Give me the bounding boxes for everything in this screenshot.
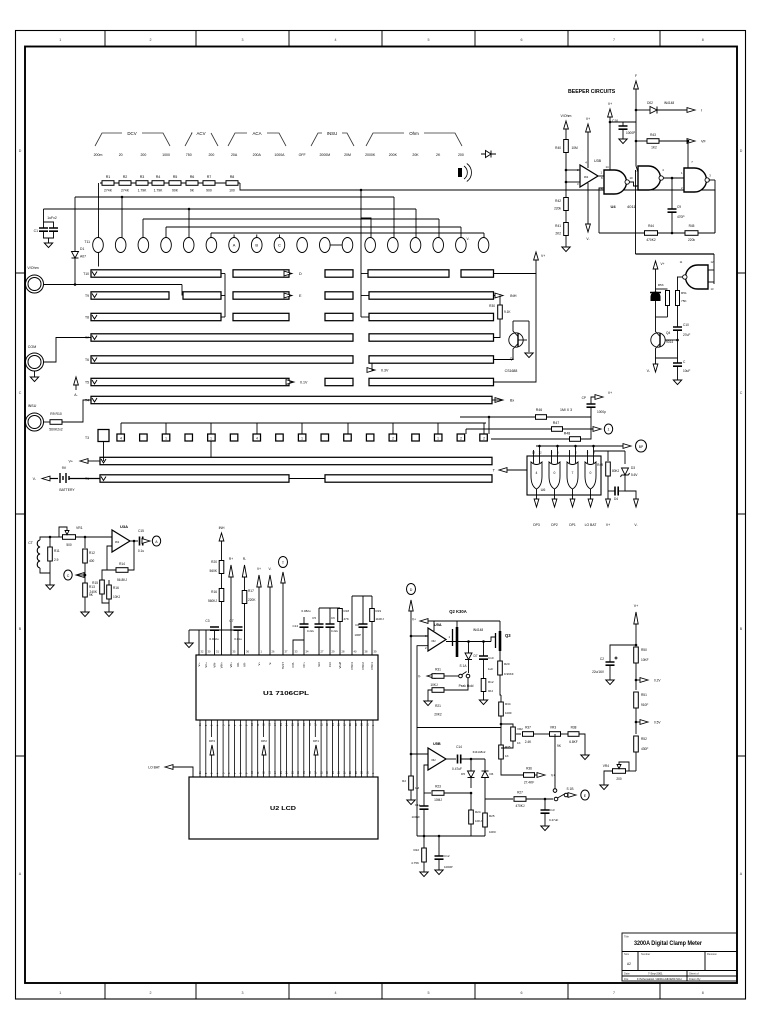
svg-text:2: 2	[150, 991, 152, 995]
wire VR3 to S1B	[554, 768, 556, 793]
capacitor C10	[673, 327, 682, 330]
resistor R20b	[498, 661, 503, 675]
connector arrow 1	[593, 427, 601, 432]
diode D7	[465, 653, 472, 660]
svg-text:D02: D02	[647, 101, 653, 105]
svg-text:20M: 20M	[344, 153, 351, 157]
svg-text:80KJ: 80KJ	[612, 469, 620, 473]
svg-text:LO BAT: LO BAT	[148, 766, 160, 770]
svg-text:10KJ: 10KJ	[430, 683, 438, 687]
resistor R31	[432, 674, 444, 679]
svg-text:R30: R30	[489, 304, 495, 308]
svg-text:Sheet of: Sheet of	[689, 972, 699, 976]
connector arrow V-	[634, 499, 639, 507]
wire stub circle	[256, 235, 258, 238]
XOR gate U6-3	[567, 462, 578, 489]
svg-text:C16: C16	[612, 119, 618, 123]
wire drop circle 17	[460, 227, 462, 238]
range bracket DCV	[95, 133, 170, 146]
resistor R20	[219, 561, 224, 574]
svg-text:R21: R21	[435, 704, 441, 708]
wire R12 down	[84, 563, 86, 575]
wire to E	[289, 295, 291, 297]
switch contact square 16	[457, 434, 465, 441]
svg-text:CT: CT	[28, 541, 34, 545]
wire	[622, 129, 624, 139]
capacitor C6	[326, 624, 335, 627]
svg-text:U4: U4	[610, 204, 616, 209]
svg-text:C10: C10	[488, 656, 494, 660]
wire D vertical	[410, 611, 412, 754]
wire C14 down	[303, 627, 305, 655]
wire F line down	[635, 170, 637, 254]
wiper chevron T10	[92, 272, 97, 276]
svg-text:12: 12	[538, 451, 542, 455]
svg-text:R43: R43	[650, 133, 656, 137]
svg-text:IN4148x2: IN4148x2	[473, 750, 486, 754]
potentiometer VR1	[63, 535, 76, 540]
wire U5B -in	[424, 765, 428, 793]
wire cap down	[590, 407, 592, 417]
wire R- down	[244, 577, 246, 590]
wire gate in A	[533, 450, 535, 463]
label 0.3V	[367, 368, 375, 373]
svg-text:1: 1	[59, 38, 61, 42]
junction D1	[74, 283, 77, 286]
connector V- arrow	[42, 476, 50, 481]
svg-text:C7: C7	[229, 619, 233, 623]
svg-text:2: 2	[150, 38, 152, 42]
capacitor C4	[587, 404, 596, 407]
svg-text:200A: 200A	[253, 153, 262, 157]
wire gate4 inputs	[713, 254, 715, 284]
svg-text:C6: C6	[331, 616, 335, 620]
wire NAND3 out	[709, 179, 716, 181]
svg-text:V-: V-	[268, 662, 272, 665]
wire R23 to node	[444, 792, 471, 794]
wire R15 top	[102, 570, 116, 580]
zone divider tick	[567, 31, 569, 1000]
svg-text:Ohm: Ohm	[409, 131, 419, 136]
svg-text:Peak Hold: Peak Hold	[459, 684, 474, 688]
switch contact square 8	[276, 434, 284, 441]
svg-text:VR3: VR3	[550, 726, 556, 730]
capacitor C14b	[458, 755, 461, 764]
resistor R4	[152, 181, 164, 186]
svg-text:062: 062	[431, 639, 436, 643]
rotary switch contact circle 9	[274, 238, 285, 253]
svg-text:1000P: 1000P	[626, 131, 635, 135]
rotary switch contact circle 8	[251, 238, 262, 253]
IC U2 LCD	[189, 777, 378, 839]
svg-text:C11: C11	[415, 803, 421, 807]
wire U1-LCD pin	[216, 720, 218, 777]
wire battery left	[48, 478, 58, 480]
svg-text:OSC2: OSC2	[361, 662, 365, 670]
wire	[626, 770, 637, 772]
svg-text:4011: 4011	[627, 204, 636, 209]
NAND gate U4D	[686, 265, 709, 289]
wire V+ rail down	[494, 274, 537, 383]
wire V+ to opamp	[587, 132, 589, 168]
zone divider tick	[659, 31, 661, 1000]
wire bus to T10	[361, 273, 368, 275]
svg-text:4: 4	[256, 436, 258, 440]
svg-text:Date:: Date:	[624, 972, 630, 976]
svg-text:T9: T9	[85, 294, 89, 298]
svg-text:ACA: ACA	[252, 131, 261, 136]
wire	[438, 859, 440, 870]
svg-text:V+: V+	[257, 662, 261, 666]
wire U1-LCD pin	[320, 720, 322, 777]
switch contact square 4	[185, 434, 193, 441]
switch wafer T6 bar	[369, 356, 494, 363]
wire C10 down	[677, 330, 679, 358]
terminal V/Ohm	[26, 275, 44, 293]
svg-text:D1: D1	[80, 247, 84, 251]
wire R13 down	[84, 597, 86, 612]
resistor R18	[338, 609, 343, 622]
resistor R22	[422, 848, 427, 862]
XOR gate U6-1	[531, 462, 542, 489]
wire opamp -in	[566, 181, 580, 183]
svg-text:R51: R51	[641, 693, 647, 697]
svg-text:400: 400	[89, 559, 95, 563]
diode D6	[482, 771, 489, 778]
switch wafer T8 bar	[91, 313, 221, 320]
resistor R19	[370, 609, 375, 622]
wire VR1 to opamp	[76, 536, 113, 538]
svg-text:470KJ: 470KJ	[515, 804, 524, 808]
zone divider tick	[104, 31, 106, 1000]
analog switch Q2	[456, 627, 459, 657]
switch wafer T1 bar	[100, 475, 289, 482]
wire U1-LCD pin	[326, 720, 328, 777]
svg-text:R5: R5	[173, 175, 178, 179]
wire bus to T8	[361, 316, 369, 318]
wire bus stub T9	[221, 295, 225, 297]
wire U1-LCD pin	[355, 720, 357, 777]
wiper chevron T8	[92, 315, 97, 319]
svg-text:4.75K: 4.75K	[411, 861, 419, 865]
svg-text:10M: 10M	[572, 146, 579, 150]
wire gate4 out to R51	[677, 277, 679, 291]
svg-text:Title: Title	[624, 935, 629, 939]
resistor R41	[564, 223, 569, 236]
connector arrow V+	[606, 499, 611, 507]
switch wafer T9 bar	[91, 292, 169, 299]
wire	[483, 642, 485, 657]
svg-text:Q2 K30A: Q2 K30A	[449, 609, 466, 614]
wire CT bottom	[40, 568, 50, 573]
svg-text:R16: R16	[211, 590, 217, 594]
svg-text:5: 5	[428, 991, 430, 995]
wire chain to circle 1	[98, 183, 100, 238]
svg-text:R31: R31	[435, 668, 441, 672]
wire INSU	[44, 421, 51, 423]
resistor R6	[186, 181, 198, 186]
svg-text:4: 4	[536, 471, 538, 475]
svg-text:COM: COM	[28, 345, 36, 349]
wire R20 down	[500, 675, 501, 695]
wire	[470, 793, 472, 810]
potentiometer VR3	[550, 732, 561, 737]
svg-text:200: 200	[616, 777, 622, 781]
wire opamp V- pin	[587, 183, 589, 224]
wire Q1 collector down	[528, 321, 530, 352]
wire drop circle 4	[165, 227, 167, 238]
svg-text:TEST: TEST	[281, 662, 285, 669]
wire	[143, 540, 147, 542]
wire U1-LCD pin	[303, 720, 305, 777]
wire square stub	[392, 423, 394, 434]
switch contact square 10	[321, 434, 329, 441]
capacitor C2 electrolytic	[606, 662, 615, 665]
svg-text:75K: 75K	[681, 299, 687, 303]
wire F line	[635, 89, 637, 166]
svg-text:7: 7	[572, 471, 574, 475]
wire	[329, 608, 331, 624]
svg-text:U3B: U3B	[594, 159, 602, 163]
svg-text:R37: R37	[525, 726, 531, 730]
wire	[544, 813, 546, 826]
wire	[484, 788, 486, 813]
rotary switch contact circle 1	[93, 238, 104, 253]
zone divider tick side	[16, 513, 746, 515]
wire to D	[289, 273, 291, 275]
svg-text:560K2x2: 560K2x2	[49, 428, 62, 432]
ground R41	[562, 247, 570, 252]
svg-text:2: 2	[460, 436, 462, 440]
svg-text:20K: 20K	[412, 153, 419, 157]
svg-text:47K: 47K	[344, 617, 349, 621]
resistor R12	[83, 549, 88, 563]
svg-text:22u/16V: 22u/16V	[592, 670, 605, 674]
svg-text:1K2: 1K2	[651, 146, 657, 150]
svg-text:1.79K: 1.79K	[138, 189, 148, 193]
connector circle C	[64, 570, 72, 580]
svg-text:ACV: ACV	[196, 131, 205, 136]
svg-text:R14: R14	[119, 562, 125, 566]
wire	[423, 862, 425, 872]
svg-text:2000M: 2000M	[319, 153, 330, 157]
wire square stub	[347, 423, 349, 434]
wire gate in A	[551, 450, 553, 463]
svg-text:V+: V+	[661, 262, 665, 266]
wire V+ down	[655, 269, 657, 289]
svg-text:VR4: VR4	[603, 764, 609, 768]
ground R13	[81, 612, 89, 617]
wire R35 down	[501, 759, 523, 775]
svg-text:9.99KF: 9.99KF	[504, 672, 514, 676]
wire C7 down	[237, 630, 239, 655]
switch wafer T4 bar	[91, 396, 492, 403]
wire wiper box down	[103, 442, 105, 462]
svg-text:C: C	[67, 574, 70, 578]
svg-text:560KJ: 560KJ	[208, 599, 217, 603]
wire buzzer down	[655, 301, 657, 318]
svg-text:BEEPER CIRCUITS: BEEPER CIRCUITS	[568, 89, 616, 95]
switch wafer T10 bar	[461, 270, 494, 277]
svg-text:1.79K: 1.79K	[154, 189, 164, 193]
rotary switch contact circle 11	[320, 238, 331, 253]
wire R11 down	[49, 561, 51, 585]
switch contact square 11	[344, 434, 352, 441]
svg-text:D: D	[410, 588, 413, 592]
svg-text:3200A Digital Clamp Meter: 3200A Digital Clamp Meter	[634, 941, 703, 947]
wire to R43	[636, 140, 647, 142]
svg-text:CP: CP	[582, 396, 586, 400]
wire VR4 wiper loop	[619, 762, 629, 771]
switch wafer T2 bar	[100, 457, 492, 464]
wire V+ down	[635, 624, 637, 645]
capacitor C12	[435, 856, 444, 859]
wire bundle L3	[44, 208, 417, 210]
wire square down	[210, 441, 212, 458]
wire to 0.3V	[372, 363, 374, 370]
rotary switch contact circle 15	[410, 238, 421, 253]
wire R30 to T7	[494, 319, 501, 338]
svg-text:3: 3	[242, 991, 244, 995]
svg-text:INH: INH	[219, 526, 225, 530]
svg-text:R18: R18	[344, 609, 350, 613]
svg-text:1M/ X 3: 1M/ X 3	[560, 408, 572, 412]
switch wafer T5 bar	[91, 378, 289, 385]
wire C3 down	[214, 630, 216, 655]
svg-text:U1 7106CPL: U1 7106CPL	[263, 691, 310, 697]
svg-text:1000p: 1000p	[597, 410, 606, 414]
svg-text:10MJ: 10MJ	[434, 798, 442, 802]
svg-text:V+: V+	[541, 254, 545, 258]
svg-text:F: F	[635, 74, 637, 78]
wire V+ to pin14	[609, 117, 611, 171]
wire V- to pin	[269, 587, 271, 655]
wire S1A down	[444, 678, 468, 690]
resistor R7	[203, 181, 215, 186]
wire chain to beeper loop	[240, 183, 715, 233]
wire R43 out	[659, 140, 692, 142]
wire	[622, 122, 624, 126]
wire	[635, 663, 637, 690]
svg-text:3: 3	[242, 38, 244, 42]
wire VR4 left	[604, 771, 613, 785]
svg-text:V+: V+	[257, 567, 261, 571]
wire bus stub T8	[221, 316, 225, 318]
svg-text:20: 20	[119, 153, 123, 157]
wire	[470, 759, 472, 771]
switch wafer T9 bar	[369, 292, 494, 299]
switch contact square 17	[480, 434, 488, 441]
svg-text:100F: 100F	[505, 711, 512, 715]
svg-text:100nF: 100nF	[411, 815, 420, 819]
svg-text:560K: 560K	[210, 569, 218, 573]
capacitor C1a	[39, 228, 48, 231]
connector arrow VF	[687, 139, 695, 144]
resistor R51	[676, 291, 680, 306]
wire	[371, 596, 373, 609]
connector V+ battery	[80, 459, 88, 464]
svg-text:V+: V+	[606, 523, 610, 527]
svg-text:1: 1	[301, 436, 303, 440]
capacitor C13	[541, 810, 550, 813]
svg-text:200m: 200m	[94, 153, 103, 157]
svg-text:Cint: Cint	[328, 662, 332, 667]
resistor R37	[523, 732, 534, 737]
svg-text:90K: 90K	[172, 189, 179, 193]
diode-test icon	[481, 151, 496, 158]
current transformer CT	[37, 540, 40, 568]
svg-text:2000K: 2000K	[365, 153, 376, 157]
svg-text:200: 200	[458, 153, 464, 157]
svg-text:4: 4	[335, 991, 337, 995]
rotary switch contact circle 4	[161, 238, 172, 253]
wire	[677, 366, 679, 380]
wire U5A Vcc	[433, 621, 435, 631]
wire R14 to out	[128, 541, 134, 570]
capacitor C1b	[49, 228, 58, 231]
wire U5A feedback loop	[417, 646, 501, 728]
wire to V-	[655, 358, 657, 364]
svg-text:R36: R36	[526, 767, 532, 771]
wire gate in B	[575, 446, 577, 463]
switch S1A	[459, 674, 463, 678]
capacitor C10b	[479, 656, 488, 659]
svg-text:Size: Size	[624, 952, 630, 956]
resistor R25	[483, 813, 488, 827]
wire feedback down	[416, 728, 418, 837]
wire	[423, 793, 425, 806]
wire	[423, 809, 425, 836]
wire bottom rail	[417, 835, 485, 837]
svg-text:100P: 100P	[354, 633, 361, 637]
wire to U5B +in	[411, 753, 428, 755]
capacitor C5	[315, 624, 324, 627]
wire	[371, 622, 373, 656]
wire C9 down	[671, 212, 673, 233]
svg-text:2: 2	[392, 436, 394, 440]
wire to R13	[84, 575, 86, 583]
svg-text:S 1B: S 1B	[567, 787, 574, 791]
wire to R46	[460, 416, 536, 418]
ground VR4	[600, 785, 608, 790]
resistor R8	[226, 181, 238, 186]
svg-text:0: 0	[590, 471, 592, 475]
switch contact square 7	[253, 434, 261, 441]
svg-text:R17: R17	[248, 589, 254, 593]
wire R+ to pin	[230, 577, 232, 655]
svg-text:R1: R1	[106, 175, 111, 179]
switch wafer T7 bar	[91, 334, 353, 341]
wire drop circle 3	[142, 219, 144, 238]
wire R38 gnd	[579, 734, 585, 755]
ground R12	[479, 700, 487, 705]
svg-text:V+: V+	[69, 460, 74, 464]
svg-text:D: D	[299, 272, 302, 276]
svg-text:R2: R2	[402, 779, 406, 783]
svg-text:D4: D4	[614, 497, 618, 501]
wire R17 to pin	[244, 604, 246, 656]
wire NAND2 out to NAND3	[664, 177, 685, 179]
svg-text:Drawn By:: Drawn By:	[689, 977, 701, 981]
svg-text:R9 R10: R9 R10	[50, 412, 62, 416]
svg-text:900: 900	[206, 189, 212, 193]
svg-text:C14: C14	[292, 624, 298, 628]
wire D1 up	[74, 197, 76, 252]
wire gate4 inB	[708, 281, 714, 283]
op-amp U5B	[428, 748, 446, 770]
svg-text:Q1: Q1	[510, 357, 515, 361]
resistor R15	[100, 580, 105, 594]
